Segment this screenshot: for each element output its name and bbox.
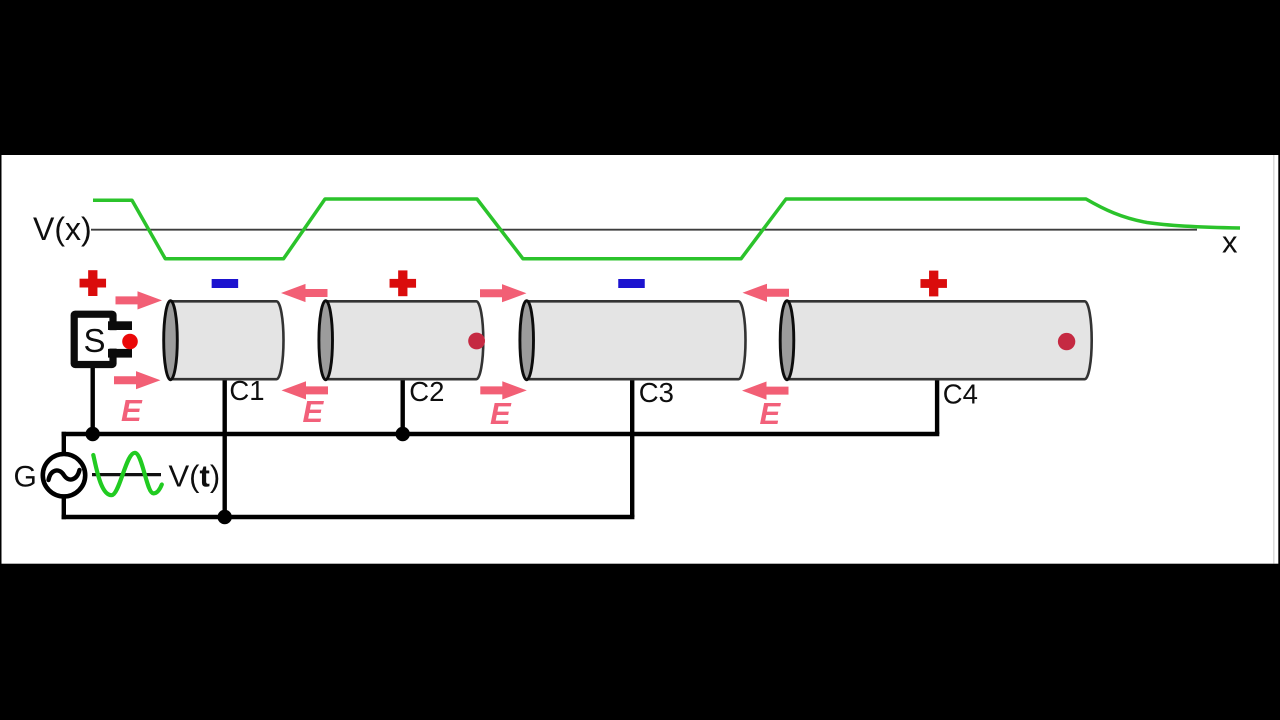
polarity - above C3	[618, 279, 645, 288]
source S box	[71, 311, 140, 369]
polarity + above C2	[390, 270, 417, 296]
svg-text:E: E	[490, 396, 512, 431]
wire top bus	[62, 432, 940, 436]
junction dot C2/top bus	[396, 427, 410, 441]
svg-text:G: G	[14, 461, 37, 494]
wire C2 lead	[401, 379, 405, 434]
drift tube C2	[319, 301, 483, 380]
V(t) reference line	[92, 473, 161, 476]
E arrow right bottom gap S-C1	[114, 371, 161, 389]
svg-text:C2: C2	[409, 376, 444, 407]
wire C4 lead	[935, 379, 939, 434]
svg-text:C4: C4	[943, 379, 978, 410]
polarity + above source	[80, 270, 107, 296]
drift tube C1	[164, 301, 284, 380]
V(t) sine wave	[93, 453, 162, 495]
E arrow right top gap C2-C3	[480, 284, 527, 302]
E arrow left top gap C1-C2	[281, 284, 328, 302]
polarity + above C4	[920, 271, 947, 297]
svg-text:C3: C3	[639, 377, 674, 408]
V(x) axis	[91, 229, 1197, 231]
E arrow left top gap C3-C4	[743, 284, 790, 302]
generator tilde	[49, 470, 80, 480]
svg-text:V(t): V(t)	[169, 459, 221, 494]
E arrow left bottom gap C3-C4	[742, 382, 789, 400]
wire C1 lead	[222, 379, 226, 517]
svg-text:E: E	[303, 394, 325, 429]
svg-text:x: x	[1222, 225, 1238, 260]
wire bottom bus	[62, 515, 635, 519]
E arrow right top gap S-C1	[116, 291, 163, 309]
svg-text:E: E	[121, 393, 143, 428]
drift tube C3	[520, 301, 746, 380]
E arrow left bottom gap C1-C2	[282, 381, 329, 399]
drift tube C4	[780, 301, 1091, 380]
generator G circle	[43, 454, 85, 496]
particle in C2	[468, 333, 485, 350]
junction dot source/top bus	[86, 427, 100, 441]
particle in C4	[1058, 333, 1075, 350]
particle at source	[122, 334, 138, 350]
wire generator bottom lead	[62, 497, 66, 519]
polarity - above C1	[212, 279, 239, 288]
junction dot C1/bottom bus	[218, 510, 232, 524]
svg-text:S: S	[84, 322, 106, 359]
svg-text:C1: C1	[229, 375, 264, 406]
wire generator top lead	[62, 432, 66, 454]
E arrow right bottom gap C2-C3	[480, 381, 527, 399]
svg-text:E: E	[760, 396, 782, 431]
wire source lead	[90, 364, 94, 434]
svg-text:V(x): V(x)	[33, 211, 92, 247]
V(x) waveform	[93, 199, 1240, 259]
wire C3 lead	[630, 379, 634, 517]
